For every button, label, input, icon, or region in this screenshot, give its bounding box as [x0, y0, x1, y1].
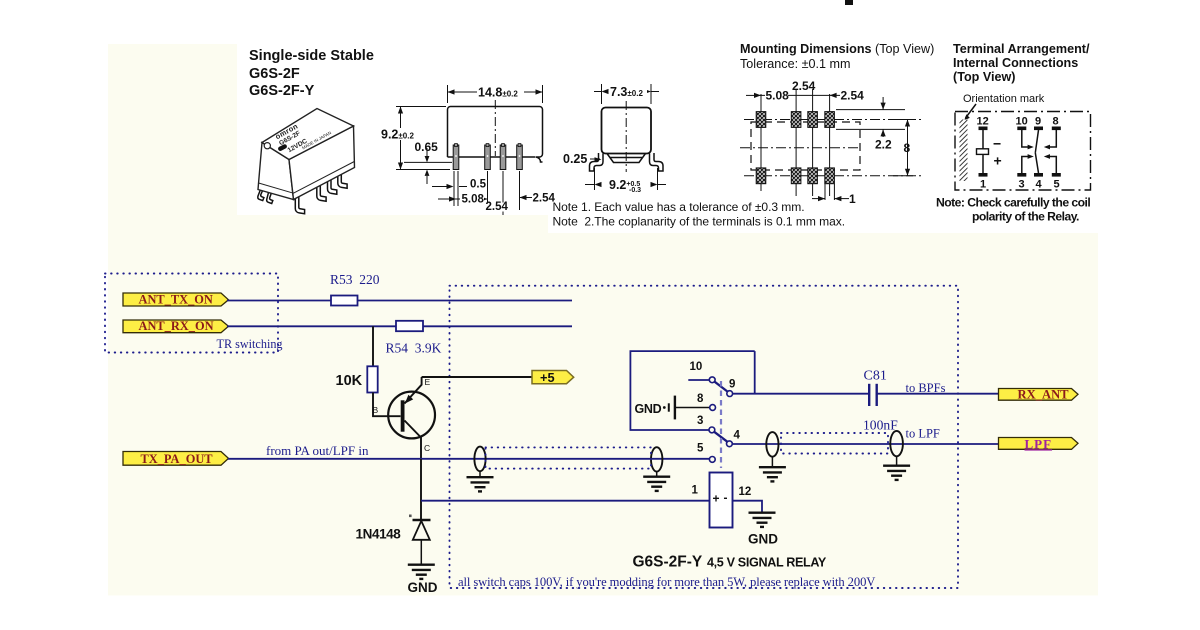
dim 8 [893, 120, 913, 176]
gull-wing pins [590, 153, 604, 171]
svg-text:1N4148: 1N4148 [356, 527, 402, 542]
net tag RX_ANT [999, 389, 1079, 401]
center dash-dot line [494, 100, 496, 156]
capacitor C81 [869, 384, 877, 406]
left bottom small pins [258, 190, 264, 201]
svg-text:ANT_RX_ON: ANT_RX_ON [139, 319, 214, 333]
center dash-dot [625, 101, 627, 172]
switch cap C-A1 [474, 447, 485, 472]
net tag ANT_TX_ON [123, 293, 229, 306]
hatched pads top row [756, 112, 766, 128]
svg-text:Mounting Dimensions (Top View): Mounting Dimensions (Top View) [740, 42, 934, 56]
gnd bars rotated [663, 396, 675, 420]
svg-text:100nF: 100nF [863, 418, 898, 433]
relay pin 5 contact [709, 457, 715, 463]
svg-text:Tolerance: ±0.1 mm: Tolerance: ±0.1 mm [740, 57, 851, 71]
svg-text:5: 5 [697, 443, 704, 455]
net tag ANT_RX_ON [123, 320, 229, 333]
dim 0.25 [563, 152, 602, 166]
hatched pads bottom row [756, 168, 766, 184]
relay body: top face [262, 109, 354, 160]
relay body: front long face [289, 126, 355, 200]
svg-text:C: C [424, 443, 430, 453]
orientation mark hatched bar [960, 120, 968, 182]
svg-text:Orientation mark: Orientation mark [963, 93, 1045, 105]
svg-text:all switch caps 100V, if you'r: all switch caps 100V, if you're modding … [458, 575, 875, 589]
svg-text:(Top View): (Top View) [953, 70, 1016, 84]
svg-text:9: 9 [1035, 116, 1041, 128]
wire collector down to diode [420, 459, 422, 520]
ground [643, 477, 670, 491]
big dotted frame [450, 286, 959, 588]
svg-text:Note 2.The coplanarity of the: Note 2.The coplanarity of the terminals … [553, 215, 846, 229]
svg-text:Terminal Arrangement/: Terminal Arrangement/ [953, 42, 1090, 56]
relay pin 10 stub [688, 379, 709, 381]
TR switching dotted frame [105, 274, 278, 353]
svg-text:8: 8 [1053, 116, 1059, 128]
net tag +5 [532, 371, 574, 384]
relay pins front row [295, 190, 304, 214]
svg-text:ANT_TX_ON: ANT_TX_ON [139, 293, 213, 307]
svg-text:1: 1 [692, 485, 699, 497]
chain-line package outline [955, 112, 1091, 191]
svg-text:GND: GND [748, 532, 778, 547]
relay body: left face [258, 143, 294, 200]
wire ANT_TX_ON to R53 [227, 300, 331, 302]
dim 2.2 [836, 97, 905, 152]
svg-text:Internal Connections: Internal Connections [953, 56, 1078, 70]
contact pin 4 (pole, bottom) [1034, 173, 1043, 177]
dim line 5.08 / 2.54 [746, 79, 864, 103]
dim 1 bottom [812, 192, 856, 206]
relay contact box [630, 351, 754, 430]
net tag TX_PA_OUT [123, 452, 229, 466]
svg-text:-: - [724, 491, 728, 505]
relay body front outline [448, 107, 543, 163]
contact arm 10-9 [715, 382, 728, 392]
diode 1N4148 [409, 515, 431, 564]
white datasheet panel right [548, 40, 1147, 233]
ground [467, 477, 494, 491]
dim 0.65 [404, 140, 452, 184]
pin 3 front [500, 144, 506, 170]
relay body side outline [602, 108, 652, 154]
svg-text:8: 8 [904, 141, 911, 155]
svg-text:4,5 V SIGNAL RELAY: 4,5 V SIGNAL RELAY [707, 556, 827, 570]
ground [749, 513, 776, 527]
svg-text:2.2: 2.2 [875, 138, 892, 152]
wire coil pin 12 to gnd [733, 501, 763, 512]
dash-dot row centerlines [744, 119, 921, 121]
wire pin 9 to C81 [733, 393, 869, 395]
resistor R54 [396, 321, 423, 331]
svg-text:+: + [994, 153, 1002, 169]
svg-text:10: 10 [1016, 116, 1028, 128]
contact pin 5 [1052, 173, 1061, 177]
svg-text:+5: +5 [540, 370, 555, 385]
leader line to orientation mark [966, 104, 977, 118]
svg-text:LPF: LPF [1025, 436, 1053, 451]
svg-text:0.25: 0.25 [563, 152, 587, 166]
svg-text:to BPFs: to BPFs [906, 381, 946, 395]
svg-text:E: E [425, 377, 431, 387]
white datasheet panel left [237, 40, 1147, 215]
dim 7.3 top [594, 84, 659, 104]
svg-text:to LPF: to LPF [906, 427, 940, 441]
wire C81 to RX_ANT [877, 393, 999, 395]
wire ANT_RX_ON to R54 [227, 325, 396, 327]
ground under diode [408, 565, 435, 579]
contact arm 3-4 [714, 432, 727, 442]
svg-text:3: 3 [1019, 179, 1025, 191]
pad column centerlines [760, 94, 762, 191]
svg-text:2.54: 2.54 [792, 79, 816, 93]
transistor Q1 [388, 377, 435, 459]
dim 9.2 bottom [585, 168, 666, 194]
svg-text:3: 3 [697, 415, 703, 427]
wire to relay coil pin 1 [421, 500, 710, 502]
svg-text:4: 4 [734, 430, 741, 442]
svg-text:from PA out/LPF in: from PA out/LPF in [266, 443, 369, 458]
svg-text:R54 3.9K: R54 3.9K [386, 341, 442, 356]
svg-text:8: 8 [697, 393, 704, 405]
svg-text:R53 220: R53 220 [330, 272, 380, 287]
dotted box row B [781, 433, 888, 454]
svg-text:B: B [373, 405, 379, 415]
dim 5.08 / 2.54 bottom [438, 171, 555, 215]
svg-text:Note: Check carefully the coil: Note: Check carefully the coil [936, 196, 1090, 210]
seating plate [607, 154, 646, 163]
svg-text:GND: GND [408, 580, 438, 595]
svg-text:10: 10 [690, 361, 703, 373]
switch cap C-B1 [766, 432, 778, 457]
svg-text:5.08: 5.08 [766, 89, 790, 103]
svg-text:polarity of the Relay.: polarity of the Relay. [972, 210, 1079, 224]
dim 9.2 left [380, 107, 450, 170]
svg-text:TX_PA_OUT: TX_PA_OUT [141, 452, 214, 466]
svg-text:10K: 10K [336, 373, 363, 389]
dim 14.8 top [448, 85, 543, 103]
pin 2 front [485, 144, 491, 170]
svg-text:12: 12 [739, 486, 752, 498]
wire emitter to +5 [422, 376, 532, 378]
svg-text:G6S-2F-Y: G6S-2F-Y [249, 83, 315, 99]
pin 1 front [453, 144, 459, 170]
svg-text:RX_ANT: RX_ANT [1018, 388, 1070, 402]
svg-text:G6S-2F: G6S-2F [249, 66, 300, 82]
svg-text:9: 9 [729, 379, 735, 391]
svg-text:0.5: 0.5 [470, 179, 487, 191]
svg-text:2.54: 2.54 [841, 89, 865, 103]
svg-text:G6S-2F-Y: G6S-2F-Y [633, 554, 703, 571]
resistor R53 [331, 296, 358, 306]
switch cap C-B2 100nF [890, 431, 903, 456]
svg-text:C81: C81 [864, 369, 887, 384]
wire 10K to base [373, 393, 401, 417]
base seam lines [259, 183, 294, 193]
svg-text:5: 5 [1054, 179, 1060, 191]
cream scan background [108, 44, 1098, 596]
switch cap C-A2 [651, 447, 662, 471]
svg-text:-0.3: -0.3 [629, 187, 641, 194]
ground [759, 467, 786, 481]
ground [883, 466, 910, 480]
svg-text:Single-side Stable: Single-side Stable [249, 48, 374, 64]
relay coil box [710, 473, 733, 528]
svg-text:1: 1 [980, 179, 986, 191]
dim 0.5 pin width [432, 171, 487, 206]
wire pin 4 to LPF [732, 443, 999, 445]
net tag LPF [999, 438, 1079, 450]
wire TX_PA_OUT to pin 5 [228, 458, 710, 460]
svg-text:4: 4 [1036, 179, 1043, 191]
pin 4 front [517, 144, 523, 170]
coil element [982, 130, 984, 149]
contact pin 3 [1017, 173, 1026, 177]
svg-text:5.08: 5.08 [462, 193, 485, 205]
svg-text:1: 1 [849, 192, 856, 206]
svg-text:Note 1. Each value has a toler: Note 1. Each value has a tolerance of ±0… [553, 200, 805, 214]
svg-text:+: + [713, 492, 720, 506]
cropped glyph top [845, 0, 853, 5]
svg-text:0.65: 0.65 [415, 140, 439, 154]
black orientation bar [277, 144, 287, 152]
coil pin 1 [979, 173, 988, 177]
wire gnd to pin 8 [676, 407, 710, 409]
svg-text:2.54: 2.54 [486, 201, 509, 213]
svg-text:−: − [993, 136, 1001, 152]
top face printing [274, 121, 332, 154]
dotted box row A [486, 447, 652, 468]
svg-text:GND: GND [635, 402, 662, 416]
wire R53 right [358, 300, 573, 302]
dashed relay outline [751, 122, 860, 170]
resistor 10K [367, 366, 377, 392]
svg-text:TR switching: TR switching [217, 337, 283, 351]
wire R54 right [423, 325, 572, 327]
svg-text:12: 12 [977, 116, 989, 128]
wire junction down to 10K [372, 326, 374, 366]
orientation hole on top face [264, 143, 270, 149]
actuator dashed link [720, 381, 722, 468]
relay pin 3 contact [709, 427, 715, 433]
